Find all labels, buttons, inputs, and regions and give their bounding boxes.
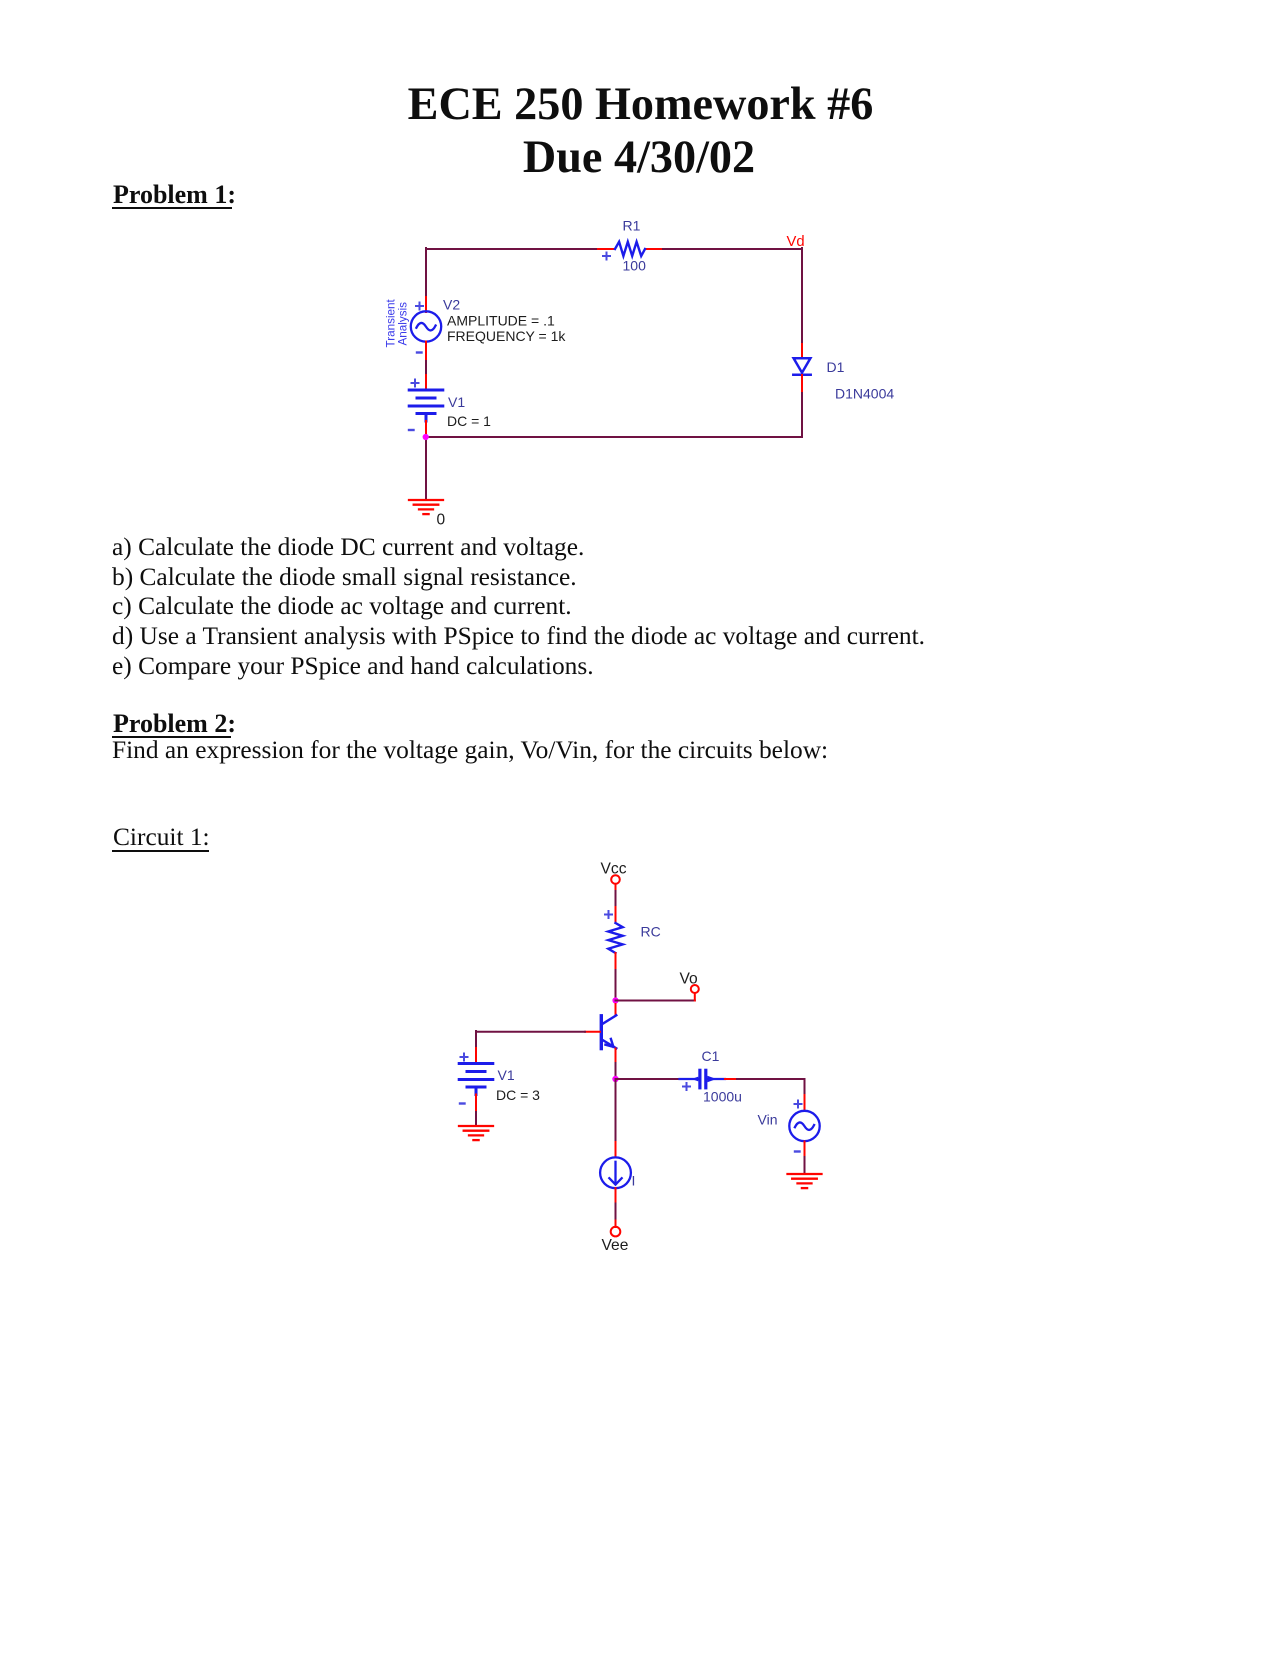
ground left <box>459 1126 493 1140</box>
wire Vcc to RC <box>615 891 617 907</box>
pin V1 top <box>425 375 427 390</box>
heading Circuit 1 <box>113 825 210 850</box>
pin Vee stub <box>615 1221 617 1228</box>
wire bottom <box>426 436 802 438</box>
wire top right segment <box>661 248 802 250</box>
node Vo <box>691 985 699 993</box>
pin V2 top <box>425 297 427 312</box>
node Vee <box>611 1227 621 1237</box>
wire between V2 and V1 <box>425 359 427 375</box>
capacitor C1 <box>680 1070 726 1088</box>
diode D1 <box>793 358 810 374</box>
question e <box>112 654 594 679</box>
pin Vin bottom <box>804 1142 806 1158</box>
minus of V1 circuit1 <box>460 1102 465 1104</box>
title line 2 <box>523 134 755 180</box>
source V2 <box>411 311 441 341</box>
svg-text:FREQUENCY = 1k: FREQUENCY = 1k <box>447 328 566 344</box>
svg-text:I: I <box>632 1173 636 1189</box>
wire junction to C1 <box>616 1078 681 1080</box>
question c <box>112 594 572 619</box>
wire base to V1 <box>476 1031 585 1048</box>
wire I to Vee <box>615 1204 617 1221</box>
wire junction to I source <box>615 1079 617 1142</box>
svg-text:Analysis: Analysis <box>397 302 410 346</box>
svg-text:1000u: 1000u <box>703 1089 742 1105</box>
svg-text:Vee: Vee <box>602 1237 629 1254</box>
svg-text:RC: RC <box>641 924 661 940</box>
pin collector <box>615 1004 617 1016</box>
wire V1 to ground <box>475 1112 477 1126</box>
heading Problem 1 <box>113 182 236 208</box>
pin R1 left <box>598 248 615 250</box>
pin D1 bottom <box>801 375 803 391</box>
pin V1c bottom <box>475 1095 477 1113</box>
battery V1 circuit1 <box>459 1064 493 1095</box>
pin V1 bottom <box>425 421 427 437</box>
wire left vertical <box>425 248 427 297</box>
transistor Q1 <box>601 1015 616 1048</box>
question b <box>112 565 577 590</box>
pin from Vcc <box>615 884 617 891</box>
pin V2 bottom <box>425 342 427 360</box>
junction node <box>423 434 429 440</box>
pin RC top <box>615 907 617 923</box>
wire top left segment <box>426 248 598 250</box>
svg-text:C1: C1 <box>702 1048 720 1064</box>
svg-text:D1N4004: D1N4004 <box>835 386 894 402</box>
plus of C1 <box>683 1083 690 1090</box>
wire junction to Vo <box>616 1000 695 1002</box>
minus of V2 <box>417 351 422 353</box>
current source I <box>600 1157 631 1188</box>
svg-text:Vo: Vo <box>680 971 699 988</box>
pin I top <box>615 1142 617 1158</box>
question a <box>112 535 584 560</box>
plus of R1 <box>603 253 610 260</box>
pin Vo stub <box>694 993 696 1001</box>
svg-text:DC = 1: DC = 1 <box>447 413 491 429</box>
svg-text:R1: R1 <box>623 218 641 234</box>
wire right vertical upper <box>801 248 803 344</box>
pin C1 right <box>725 1078 737 1080</box>
source Vin <box>789 1111 819 1141</box>
svg-text:AMPLITUDE = .1: AMPLITUDE = .1 <box>447 313 555 329</box>
svg-text:0: 0 <box>437 512 446 529</box>
wire RC to collector junction <box>615 970 617 997</box>
pin D1 top <box>801 344 803 358</box>
wire Vin to ground <box>804 1157 806 1174</box>
pin V1c top <box>475 1048 477 1064</box>
wire right vertical lower <box>801 391 803 437</box>
resistor RC <box>608 923 622 953</box>
title line 1 <box>408 81 874 127</box>
svg-text:V1: V1 <box>448 394 465 410</box>
svg-text:100: 100 <box>623 258 647 274</box>
plus of V1 circuit1 <box>461 1054 468 1061</box>
node Vcc <box>611 875 620 884</box>
plus of RC <box>605 911 612 918</box>
pin I bottom <box>615 1188 617 1203</box>
svg-text:DC = 3: DC = 3 <box>496 1087 540 1103</box>
junction emitter <box>612 1076 618 1082</box>
heading Problem 2 <box>113 711 236 737</box>
resistor R1 <box>615 242 645 256</box>
svg-text:Vin: Vin <box>758 1112 778 1128</box>
battery V1 <box>409 390 443 421</box>
minus of Vin <box>795 1150 800 1152</box>
pin R1 right <box>645 248 661 250</box>
plus of V1 <box>412 380 419 387</box>
svg-text:V2: V2 <box>443 297 460 313</box>
pin Vin top <box>804 1095 806 1111</box>
pin RC bottom <box>615 953 617 970</box>
pin base <box>585 1031 600 1033</box>
svg-text:V1: V1 <box>498 1067 515 1083</box>
ground 0 <box>409 500 443 514</box>
wire emitter to junction <box>615 1063 617 1079</box>
junction collector <box>612 997 618 1003</box>
plus of V2 <box>416 303 423 310</box>
minus of V1 <box>409 429 414 431</box>
svg-text:Vd: Vd <box>787 234 805 250</box>
ground Vin <box>788 1174 822 1188</box>
Problem 2 intro <box>112 738 828 763</box>
pin emitter <box>615 1049 617 1064</box>
wire to ground <box>425 437 427 500</box>
wire C1 to Vin <box>737 1079 805 1095</box>
question d <box>112 624 925 649</box>
svg-text:D1: D1 <box>827 359 845 375</box>
plus of Vin <box>795 1101 802 1108</box>
